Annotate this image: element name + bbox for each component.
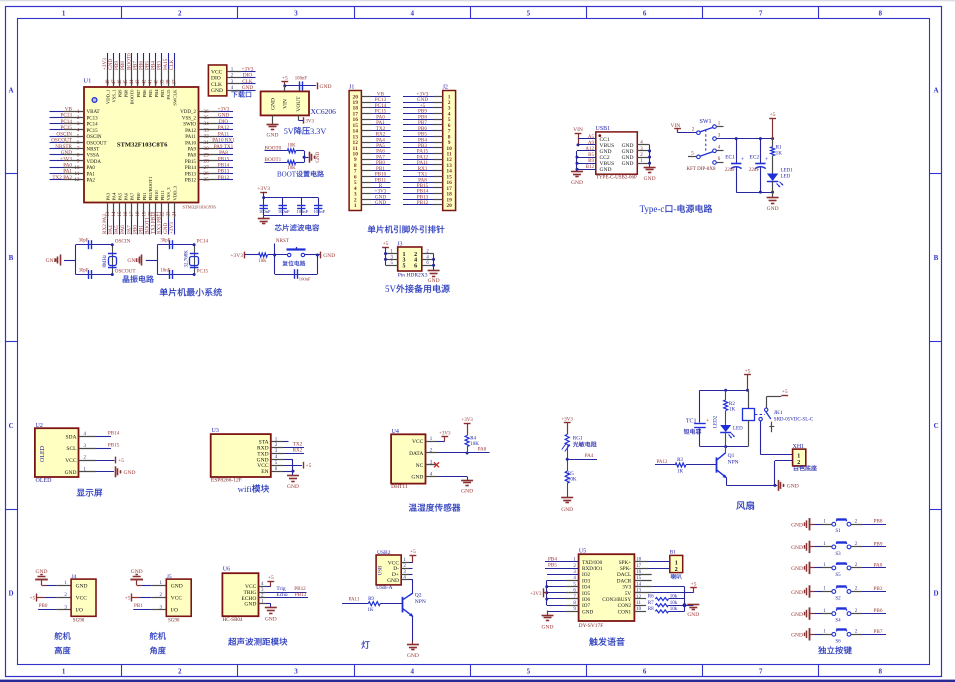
svg-text:14: 14 xyxy=(112,211,117,217)
svg-text:RXD/IO1: RXD/IO1 xyxy=(582,566,603,572)
svg-text:GND: GND xyxy=(387,578,399,584)
svg-text:VDD_3: VDD_3 xyxy=(172,185,177,200)
svg-text:+3V3: +3V3 xyxy=(230,253,243,259)
svg-text:R4: R4 xyxy=(470,436,476,441)
svg-text:6: 6 xyxy=(414,263,417,269)
svg-text:PB13: PB13 xyxy=(218,169,230,175)
svg-text:5V: 5V xyxy=(385,284,397,294)
svg-text:1K: 1K xyxy=(677,469,684,474)
svg-text:KFT DIP-8X8: KFT DIP-8X8 xyxy=(687,167,716,172)
svg-text:USB1: USB1 xyxy=(596,126,611,132)
svg-text:12: 12 xyxy=(74,177,80,183)
svg-text:100nF: 100nF xyxy=(296,209,308,214)
svg-text:C: C xyxy=(934,422,939,430)
svg-text:U6: U6 xyxy=(223,567,230,573)
svg-text:47: 47 xyxy=(112,79,117,85)
svg-text:SPK-: SPK- xyxy=(620,566,632,572)
svg-text:wifi: wifi xyxy=(238,484,253,494)
svg-text:R6: R6 xyxy=(648,595,654,600)
svg-text:PA5: PA5 xyxy=(118,192,123,200)
svg-text:TX2 PA2: TX2 PA2 xyxy=(52,175,72,181)
svg-text:+5: +5 xyxy=(268,575,274,581)
svg-text:S2: S2 xyxy=(835,597,841,602)
svg-text:3: 3 xyxy=(77,121,80,127)
svg-text:+5: +5 xyxy=(383,241,389,247)
svg-text:PC15: PC15 xyxy=(60,125,72,131)
svg-text:20: 20 xyxy=(446,203,452,209)
svg-text:PA0: PA0 xyxy=(87,166,96,171)
svg-text:+3V3: +3V3 xyxy=(561,418,573,423)
svg-text:+3V3: +3V3 xyxy=(257,186,270,192)
svg-text:PB7: PB7 xyxy=(874,629,883,635)
svg-text:DACL: DACL xyxy=(617,572,631,578)
svg-text:GND: GND xyxy=(767,206,779,212)
svg-text:4: 4 xyxy=(410,668,414,676)
svg-text:GND: GND xyxy=(461,489,473,495)
svg-text:GND: GND xyxy=(791,590,803,596)
svg-text:BOOT: BOOT xyxy=(277,171,297,179)
svg-text:+5: +5 xyxy=(282,75,288,81)
svg-text:CON2: CON2 xyxy=(618,603,632,609)
svg-text:USB: USB xyxy=(379,565,384,575)
svg-text:GND: GND xyxy=(124,470,136,476)
svg-text:STM32F103C8T6: STM32F103C8T6 xyxy=(183,205,217,210)
svg-text:GND: GND xyxy=(791,566,803,572)
svg-text:D: D xyxy=(8,590,13,598)
svg-text:GND: GND xyxy=(211,88,223,94)
svg-text:NPN: NPN xyxy=(415,599,426,605)
svg-text:PC14: PC14 xyxy=(87,123,99,128)
svg-text:PC14: PC14 xyxy=(60,119,72,125)
svg-text:10K: 10K xyxy=(258,259,267,264)
svg-text:SPK+: SPK+ xyxy=(619,560,632,566)
svg-text:PB5: PB5 xyxy=(148,89,153,98)
svg-text:PB3: PB3 xyxy=(874,586,883,592)
svg-text:35: 35 xyxy=(204,115,210,121)
svg-text:LED2: LED2 xyxy=(714,415,719,428)
svg-text:PB10: PB10 xyxy=(154,190,159,201)
svg-text:SCL: SCL xyxy=(66,446,77,452)
svg-text:VB: VB xyxy=(65,107,73,113)
svg-text:OSCOUT: OSCOUT xyxy=(115,268,137,274)
svg-text:VDDA: VDDA xyxy=(87,160,102,165)
svg-text:SG90: SG90 xyxy=(168,618,180,623)
svg-text:LED: LED xyxy=(733,427,743,432)
svg-text:30pF: 30pF xyxy=(160,239,170,244)
svg-text:PB8: PB8 xyxy=(874,519,883,525)
svg-text:NC: NC xyxy=(416,463,424,469)
svg-text:PB7: PB7 xyxy=(136,89,141,98)
svg-text:GND: GND xyxy=(265,617,277,623)
svg-text:OSCIN: OSCIN xyxy=(56,131,72,137)
svg-text:31: 31 xyxy=(204,140,210,146)
svg-text:GND: GND xyxy=(218,113,229,119)
svg-text:8: 8 xyxy=(77,152,80,158)
svg-text:GND: GND xyxy=(791,612,803,618)
svg-text:100nF: 100nF xyxy=(278,209,290,214)
svg-text:+5: +5 xyxy=(306,463,312,469)
svg-text:EC1: EC1 xyxy=(725,155,735,161)
svg-text:PB15: PB15 xyxy=(218,156,230,162)
svg-text:LED: LED xyxy=(781,174,791,179)
svg-text:3V3: 3V3 xyxy=(622,585,631,591)
svg-text:STM32F103C8T6: STM32F103C8T6 xyxy=(117,142,168,149)
svg-text:OLED: OLED xyxy=(36,478,53,484)
svg-text:NRSTR: NRSTR xyxy=(55,144,72,150)
svg-text:PA9: PA9 xyxy=(188,148,197,153)
svg-text:2: 2 xyxy=(178,10,182,18)
svg-text:PB1: PB1 xyxy=(142,192,147,201)
svg-text:1K: 1K xyxy=(776,150,783,156)
svg-text:100nF: 100nF xyxy=(299,277,311,282)
svg-text:ESP8266-12F: ESP8266-12F xyxy=(211,478,242,484)
svg-text:RG1: RG1 xyxy=(573,435,583,441)
svg-text:R7: R7 xyxy=(648,601,654,606)
svg-text:GND: GND xyxy=(407,653,419,659)
svg-text:27: 27 xyxy=(204,165,210,171)
svg-text:S4: S4 xyxy=(835,619,841,624)
svg-text:OSCOUT: OSCOUT xyxy=(51,138,73,144)
svg-text:VIN: VIN xyxy=(573,127,583,133)
svg-text:39: 39 xyxy=(161,79,166,85)
svg-text:+3V3: +3V3 xyxy=(461,418,473,423)
svg-text:45: 45 xyxy=(124,79,129,85)
svg-text:26: 26 xyxy=(204,171,210,177)
svg-text:PA4: PA4 xyxy=(585,454,594,459)
svg-text:PB13: PB13 xyxy=(295,592,307,598)
svg-text:VOUT: VOUT xyxy=(296,96,302,112)
svg-text:A12: A12 xyxy=(585,147,594,152)
svg-text:S6: S6 xyxy=(835,639,841,644)
svg-text:PB15: PB15 xyxy=(108,442,120,448)
svg-text:7: 7 xyxy=(77,146,80,152)
svg-text:VSSA: VSSA xyxy=(87,154,100,159)
svg-text:GND: GND xyxy=(127,258,139,264)
svg-text:30pF: 30pF xyxy=(79,239,89,244)
svg-text:VBAT: VBAT xyxy=(87,110,100,115)
svg-text:PC15: PC15 xyxy=(197,268,209,274)
svg-text:33: 33 xyxy=(204,127,210,133)
svg-text:+5: +5 xyxy=(125,595,131,601)
svg-text:GND: GND xyxy=(791,523,803,529)
svg-text:PB5: PB5 xyxy=(548,563,557,569)
svg-text:5V: 5V xyxy=(284,127,294,136)
svg-text:+3V3: +3V3 xyxy=(530,592,542,597)
svg-text:8MHz: 8MHz xyxy=(103,254,108,268)
svg-text:42: 42 xyxy=(142,79,147,85)
svg-text:PA10: PA10 xyxy=(185,141,196,146)
svg-text:1: 1 xyxy=(62,10,66,18)
svg-text:4: 4 xyxy=(718,146,721,151)
svg-text:1: 1 xyxy=(62,668,66,676)
svg-text:GND: GND xyxy=(428,278,440,284)
svg-text:JK1: JK1 xyxy=(774,410,783,416)
svg-text:SRD-05VDC-SL-C: SRD-05VDC-SL-C xyxy=(774,417,814,422)
svg-text:GND: GND xyxy=(242,85,253,91)
svg-text:48: 48 xyxy=(106,79,111,85)
svg-text:PB9: PB9 xyxy=(118,89,123,98)
svg-text:I/O: I/O xyxy=(76,608,83,614)
svg-text:GND: GND xyxy=(542,625,554,631)
svg-text:J1: J1 xyxy=(349,85,354,91)
svg-text:HC-SR04: HC-SR04 xyxy=(223,618,243,623)
svg-text:3: 3 xyxy=(294,668,298,676)
svg-text:GND: GND xyxy=(644,176,656,182)
svg-text:PB11: PB11 xyxy=(160,190,165,201)
svg-text:+: + xyxy=(706,419,710,425)
svg-text:GND: GND xyxy=(271,98,277,110)
svg-text:OSCIN: OSCIN xyxy=(87,135,102,140)
svg-text:16: 16 xyxy=(124,211,129,217)
svg-text:CLK: CLK xyxy=(169,59,175,70)
svg-text:NPN: NPN xyxy=(728,459,739,465)
svg-text:IO2: IO2 xyxy=(582,572,590,578)
svg-text:S5: S5 xyxy=(835,573,841,578)
svg-text:+5: +5 xyxy=(29,595,35,601)
svg-text:8: 8 xyxy=(878,668,882,676)
svg-text:5: 5 xyxy=(691,152,694,157)
svg-text:PB14: PB14 xyxy=(185,166,197,171)
svg-text:1: 1 xyxy=(823,519,826,524)
svg-text:9: 9 xyxy=(77,159,80,165)
svg-text:GND: GND xyxy=(320,84,332,90)
svg-text:PB12: PB12 xyxy=(218,175,230,181)
svg-text:23: 23 xyxy=(167,211,172,217)
svg-text:SWCLK: SWCLK xyxy=(172,89,177,106)
svg-text:A: A xyxy=(933,86,938,94)
svg-text:PB6: PB6 xyxy=(142,89,147,98)
svg-text:EC2: EC2 xyxy=(749,155,759,161)
svg-text:B: B xyxy=(934,254,939,262)
svg-text:VCC: VCC xyxy=(412,439,424,445)
svg-text:38: 38 xyxy=(167,79,172,85)
svg-text:EN: EN xyxy=(261,469,268,475)
svg-text:DY-SV17F: DY-SV17F xyxy=(579,623,604,629)
svg-text:R5: R5 xyxy=(568,472,574,477)
svg-text:28: 28 xyxy=(204,159,210,165)
svg-text:100nF: 100nF xyxy=(295,76,308,81)
svg-text:Q1: Q1 xyxy=(728,453,735,459)
svg-text:10nF: 10nF xyxy=(160,269,170,274)
svg-text:36: 36 xyxy=(204,109,210,115)
svg-text:R3: R3 xyxy=(677,458,683,463)
svg-text:Type-c: Type-c xyxy=(640,204,665,214)
svg-text:B1: B1 xyxy=(670,550,677,556)
svg-text:PB0: PB0 xyxy=(136,192,141,201)
svg-text:J2: J2 xyxy=(443,85,448,91)
svg-text:VSS_1: VSS_1 xyxy=(111,89,116,103)
svg-text:OSCOUT: OSCOUT xyxy=(87,141,107,146)
svg-text:PA8: PA8 xyxy=(219,150,228,156)
svg-text:5: 5 xyxy=(77,134,80,140)
svg-text:Pin HDR2X3: Pin HDR2X3 xyxy=(398,272,428,278)
svg-text:GND: GND xyxy=(323,253,335,259)
svg-text:PA11: PA11 xyxy=(218,131,230,137)
svg-text:2: 2 xyxy=(178,668,182,676)
svg-text:CLK: CLK xyxy=(211,82,222,88)
svg-text:GND: GND xyxy=(375,200,386,206)
svg-text:1K: 1K xyxy=(729,407,736,413)
svg-text:PB0: PB0 xyxy=(39,604,48,609)
svg-text:PC13: PC13 xyxy=(87,116,99,121)
svg-text:22uF: 22uF xyxy=(725,168,736,173)
svg-text:TC1: TC1 xyxy=(686,418,697,424)
svg-text:5: 5 xyxy=(403,263,406,269)
svg-text:DIO: DIO xyxy=(243,73,252,79)
svg-text:R9: R9 xyxy=(368,597,374,602)
svg-text:10K: 10K xyxy=(470,442,479,447)
svg-text:2: 2 xyxy=(692,127,695,132)
svg-text:PB13: PB13 xyxy=(185,172,197,177)
svg-text:PB1: PB1 xyxy=(134,604,143,609)
svg-text:PA6: PA6 xyxy=(124,192,129,200)
svg-text:24: 24 xyxy=(173,211,178,217)
svg-text:10: 10 xyxy=(74,165,80,171)
svg-text:34: 34 xyxy=(204,121,210,127)
svg-text:+5: +5 xyxy=(118,458,124,464)
svg-text:-: - xyxy=(673,204,676,214)
svg-text:44: 44 xyxy=(130,79,135,85)
svg-text:PC13: PC13 xyxy=(60,113,72,119)
svg-text:PB14: PB14 xyxy=(218,162,230,168)
svg-text:30: 30 xyxy=(204,146,210,152)
svg-text:VCC: VCC xyxy=(211,69,223,75)
svg-text:5V: 5V xyxy=(625,591,632,597)
svg-text:PB15: PB15 xyxy=(185,160,197,165)
svg-text:1: 1 xyxy=(797,453,800,459)
svg-text:1: 1 xyxy=(675,560,678,566)
svg-text:PB6: PB6 xyxy=(874,608,883,614)
svg-text:GND: GND xyxy=(76,583,88,589)
svg-text:PC14: PC14 xyxy=(197,239,209,245)
svg-text:43: 43 xyxy=(136,79,141,85)
svg-text:18: 18 xyxy=(136,211,141,217)
svg-text:25: 25 xyxy=(204,177,210,183)
svg-text:+5: +5 xyxy=(691,581,697,587)
svg-text:GND: GND xyxy=(791,633,803,639)
svg-text:CLK: CLK xyxy=(242,79,253,85)
svg-text:CON3/BUSY: CON3/BUSY xyxy=(602,597,631,603)
svg-text:2: 2 xyxy=(675,567,678,573)
svg-text:+3V3: +3V3 xyxy=(439,431,451,436)
svg-text:Echo: Echo xyxy=(276,592,288,598)
svg-text:IO5: IO5 xyxy=(582,591,590,597)
svg-text:PA11: PA11 xyxy=(185,135,196,140)
svg-text:XC6206: XC6206 xyxy=(311,107,337,116)
svg-text:VSS_3: VSS_3 xyxy=(166,187,171,201)
svg-text:IO6: IO6 xyxy=(582,597,590,603)
svg-text:4: 4 xyxy=(410,10,414,18)
svg-text:PA10 RX1: PA10 RX1 xyxy=(212,138,235,144)
svg-text:PC15: PC15 xyxy=(87,129,99,134)
svg-text:S3: S3 xyxy=(835,552,841,557)
svg-text:PA9 TX1: PA9 TX1 xyxy=(214,144,234,150)
svg-text:PA11: PA11 xyxy=(349,598,360,603)
svg-text:22uF: 22uF xyxy=(749,168,760,173)
svg-text:GND: GND xyxy=(267,133,279,139)
svg-text:32.768K: 32.768K xyxy=(185,250,190,268)
svg-text:VCC: VCC xyxy=(171,596,183,602)
svg-text:U1: U1 xyxy=(83,78,91,85)
svg-text:37: 37 xyxy=(173,79,178,85)
svg-text:GND: GND xyxy=(571,180,583,186)
svg-text:30pF: 30pF xyxy=(79,269,89,274)
svg-text:6: 6 xyxy=(718,157,721,162)
svg-text:TXD/IO0: TXD/IO0 xyxy=(582,560,603,566)
svg-text:29: 29 xyxy=(204,152,210,158)
svg-text:DATA: DATA xyxy=(409,451,423,457)
svg-text:SG90: SG90 xyxy=(73,618,85,623)
svg-text:VCC: VCC xyxy=(65,458,77,464)
svg-text:2: 2 xyxy=(797,460,800,466)
svg-text:Q2: Q2 xyxy=(415,593,422,599)
svg-text:+: + xyxy=(741,157,745,163)
svg-text:+5: +5 xyxy=(410,549,416,555)
svg-text:40: 40 xyxy=(154,79,159,85)
svg-text:32: 32 xyxy=(204,134,210,140)
svg-text:PB9: PB9 xyxy=(874,541,883,547)
svg-text:PA8: PA8 xyxy=(188,154,197,159)
svg-text:IO4: IO4 xyxy=(582,585,590,591)
svg-text:+3V3: +3V3 xyxy=(60,156,72,162)
svg-text:VCC: VCC xyxy=(76,596,88,602)
svg-text:SDA: SDA xyxy=(66,434,77,440)
svg-text:17: 17 xyxy=(130,211,135,217)
svg-text:PB3: PB3 xyxy=(160,89,165,98)
svg-text:+3V3: +3V3 xyxy=(218,107,230,113)
svg-text:6: 6 xyxy=(77,140,80,146)
svg-text:SW1: SW1 xyxy=(700,119,712,125)
svg-text:GND: GND xyxy=(582,609,593,615)
svg-text:6: 6 xyxy=(643,668,647,676)
svg-text:GND: GND xyxy=(244,602,256,608)
svg-text:A9: A9 xyxy=(588,141,595,146)
svg-text:DIO: DIO xyxy=(219,119,228,125)
svg-text:PB14: PB14 xyxy=(108,431,120,437)
svg-text:3.3V: 3.3V xyxy=(310,127,326,136)
svg-text:11: 11 xyxy=(74,171,79,177)
svg-text:PA2: PA2 xyxy=(87,179,96,184)
svg-text:+5: +5 xyxy=(770,112,776,118)
svg-text:PA0: PA0 xyxy=(874,562,883,568)
svg-text:PB2/BOOT1: PB2/BOOT1 xyxy=(148,176,153,201)
svg-text:OSCIN: OSCIN xyxy=(115,239,131,245)
svg-text:19: 19 xyxy=(142,211,147,217)
svg-text:1: 1 xyxy=(823,630,826,635)
svg-text:GND: GND xyxy=(600,167,612,173)
svg-text:7: 7 xyxy=(759,668,763,676)
svg-text:GND: GND xyxy=(171,583,183,589)
svg-text:GND: GND xyxy=(61,150,72,156)
svg-text:+3V3: +3V3 xyxy=(242,66,254,72)
svg-text:GND: GND xyxy=(65,470,77,476)
svg-text:2: 2 xyxy=(855,630,858,635)
svg-text:SWIO: SWIO xyxy=(183,123,196,128)
svg-text:DACR: DACR xyxy=(617,578,632,584)
svg-text:PB8: PB8 xyxy=(124,89,129,98)
svg-text:3V3: 3V3 xyxy=(305,119,314,124)
svg-text:U3: U3 xyxy=(212,428,219,434)
svg-text:GND: GND xyxy=(411,475,423,481)
svg-text:B: B xyxy=(9,254,14,262)
svg-text:PA12: PA12 xyxy=(218,125,230,131)
svg-text:S1: S1 xyxy=(835,529,841,534)
svg-text:I/O: I/O xyxy=(171,608,178,614)
svg-text:IO7: IO7 xyxy=(582,603,590,609)
svg-text:DIO: DIO xyxy=(211,76,221,82)
svg-text:3: 3 xyxy=(718,133,721,138)
svg-text:+5: +5 xyxy=(782,389,788,395)
